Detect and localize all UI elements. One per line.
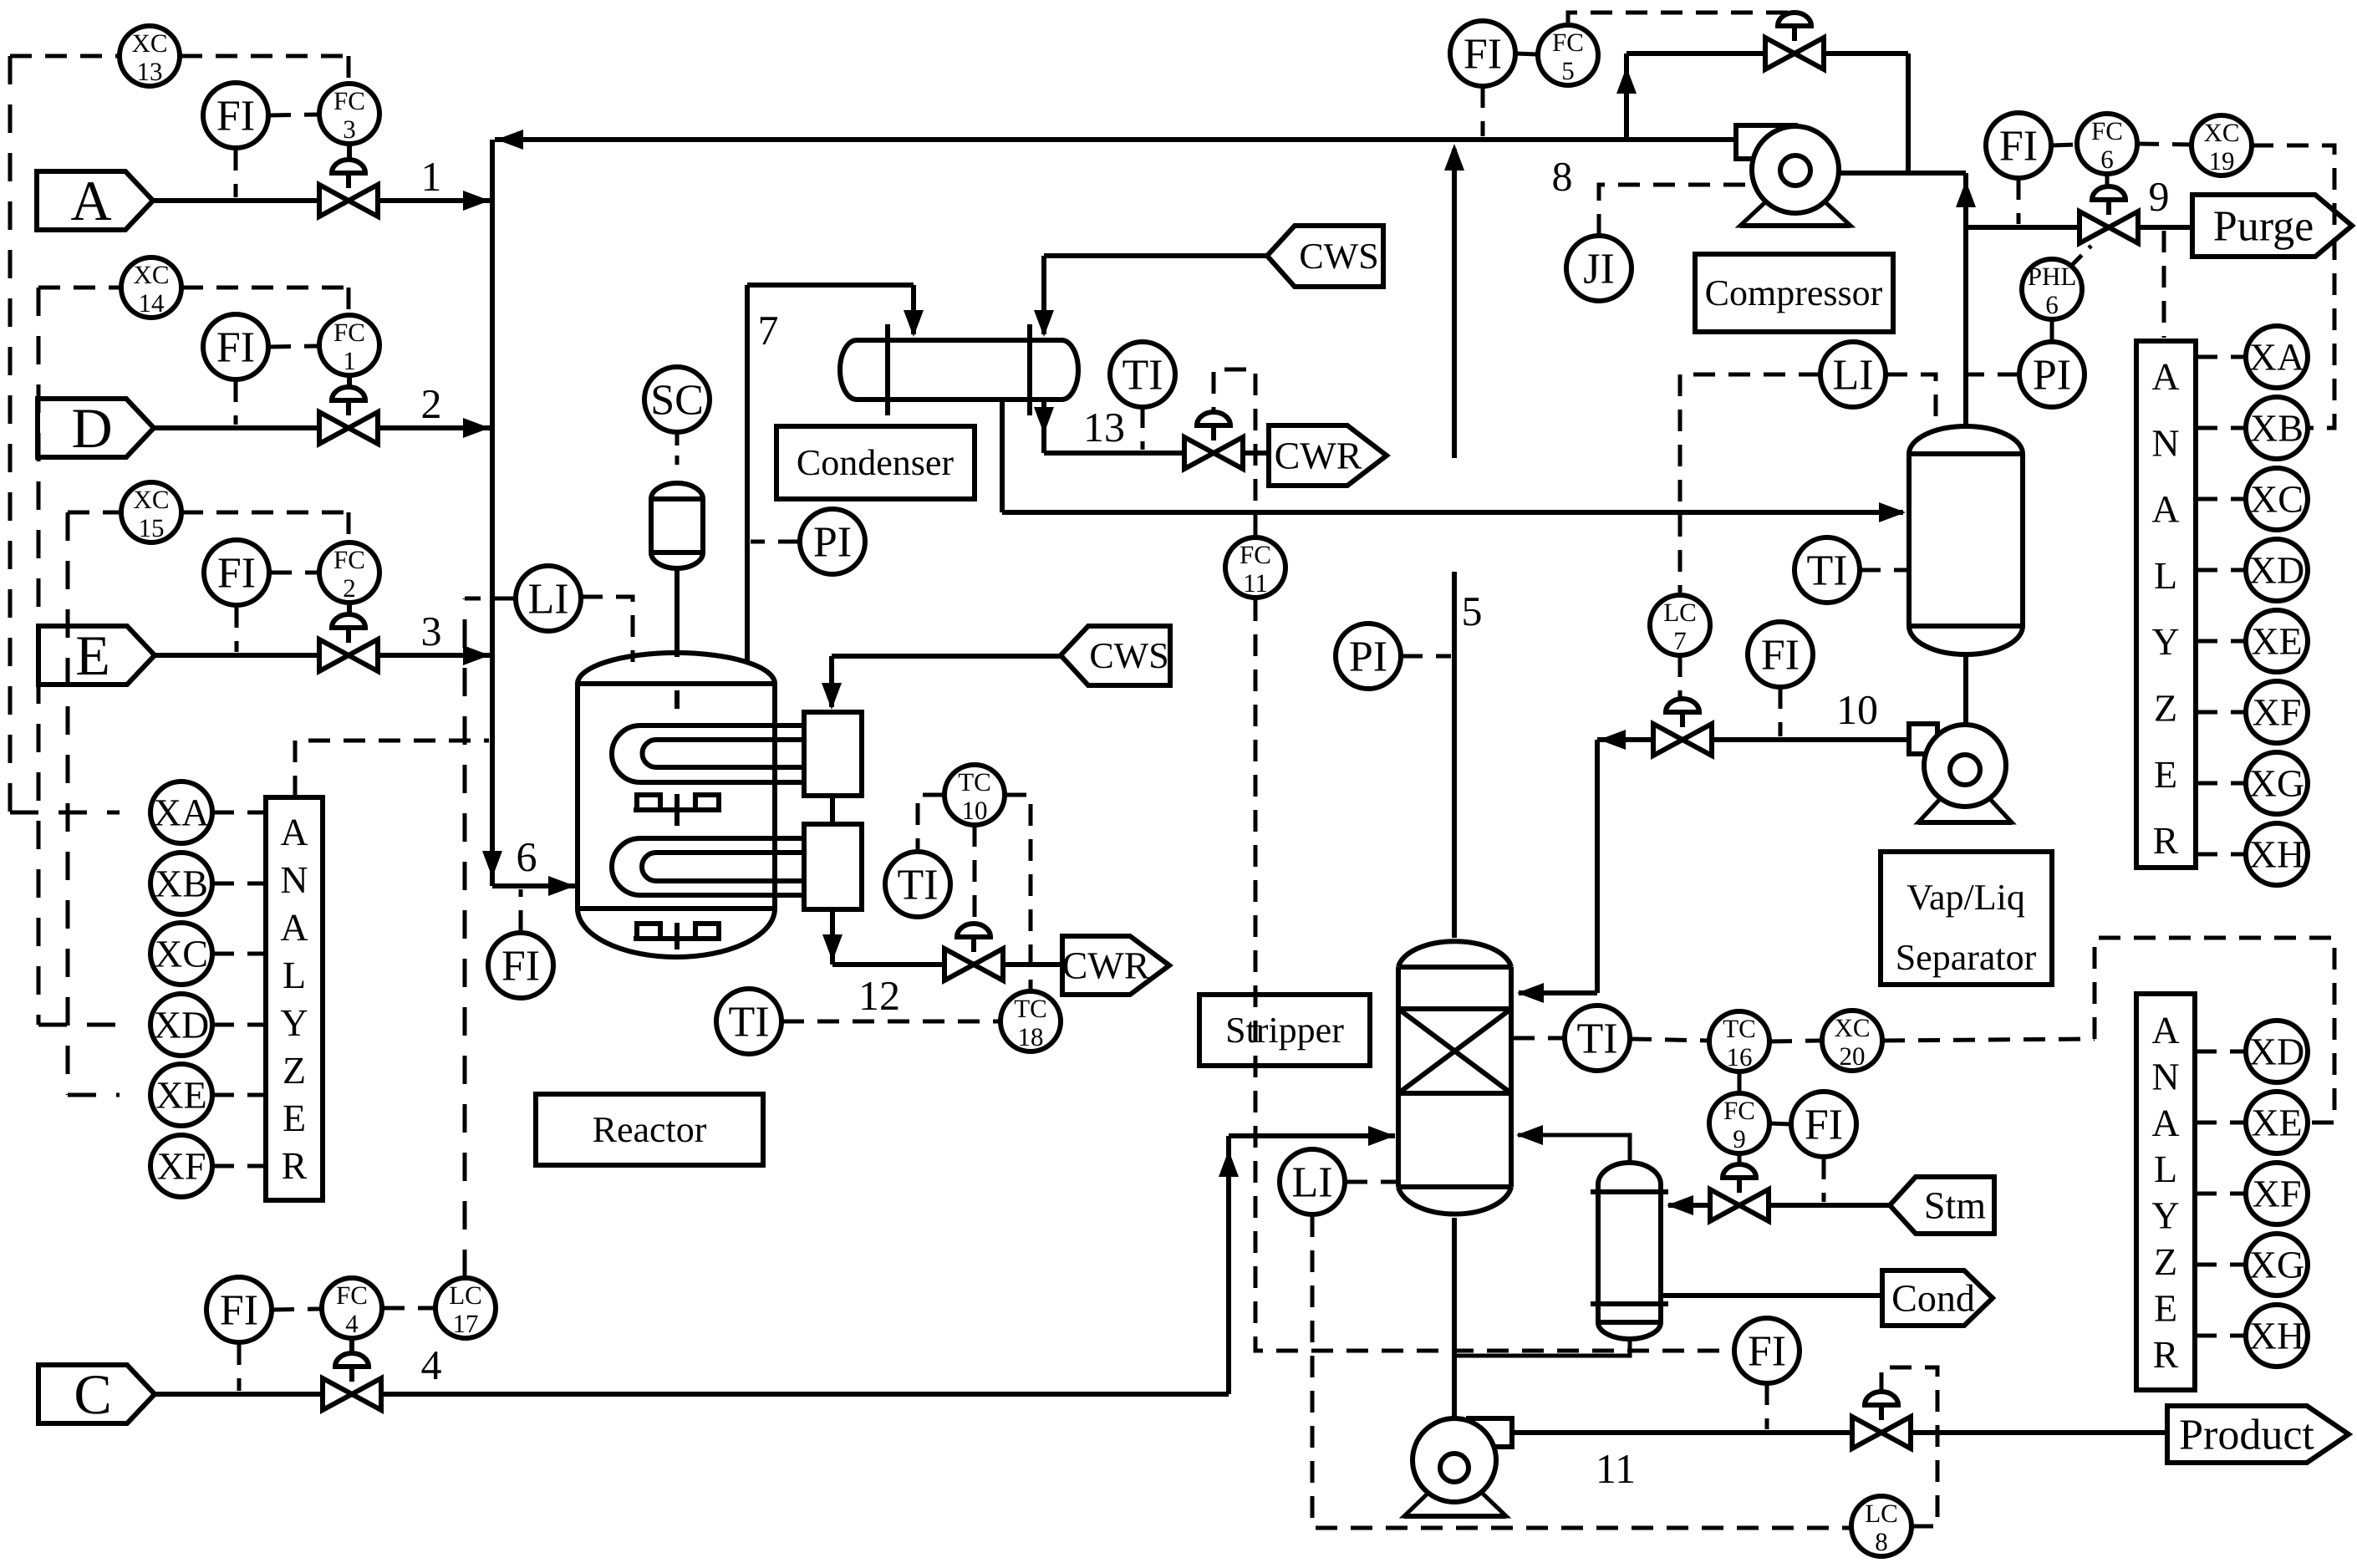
valve reactor CW (TC10) — [944, 924, 1003, 980]
svg-text:A: A — [280, 811, 308, 853]
vessel Reactor body — [578, 653, 775, 957]
controller FC11 — [1225, 537, 1285, 598]
indicator PI (separator) — [2019, 342, 2085, 407]
label stream 10 — [1836, 686, 1878, 733]
wire: reboiler drain to bottoms — [1454, 1337, 1630, 1356]
svg-text:LC: LC — [449, 1280, 482, 1310]
wire: dashed FC11 down to FI — [1255, 599, 1734, 1351]
feed arrow C — [38, 1362, 155, 1426]
svg-text:FI: FI — [1805, 1102, 1843, 1149]
compressor base — [1740, 202, 1850, 226]
controller FC5 — [1538, 25, 1598, 85]
controller FC6 — [2077, 114, 2137, 174]
indicator XH (purge analyzer) — [2246, 823, 2308, 885]
wire: stream 5 stripper overhead — [1444, 144, 1464, 938]
svg-text:14: 14 — [139, 288, 165, 318]
svg-text:Cond: Cond — [1891, 1277, 1975, 1320]
svg-text:XF: XF — [2253, 691, 2302, 734]
wire: dashed FC4-LC17 — [383, 1306, 435, 1311]
wire: dashed PI to stream 5 — [1401, 654, 1451, 659]
wire: dashed TI to stream 13 — [1141, 406, 1145, 450]
wire: dashed PI to stream 7 — [751, 540, 800, 544]
wire: FC1 stem to valve actuator — [347, 375, 352, 388]
svg-text:FC: FC — [1552, 28, 1584, 57]
wire: stream 13 condenser CW return — [1034, 400, 1269, 453]
feed arrow E — [38, 624, 155, 687]
label stream 7 — [758, 307, 779, 354]
in arrow CWS (condenser) — [1267, 226, 1383, 287]
indicator XF (product analyzer) — [2246, 1163, 2308, 1224]
svg-text:L: L — [2154, 1148, 2177, 1190]
svg-text:R: R — [2153, 1333, 2179, 1376]
indicator XD (purge analyzer) — [2246, 539, 2308, 601]
compressor body — [1752, 126, 1839, 213]
indicator XD (feed analyzer) — [150, 994, 212, 1056]
controller XC15 — [121, 482, 181, 542]
wire: separator overhead riser — [1956, 173, 1976, 426]
wire: FC4 stem to valve actuator — [349, 1338, 354, 1353]
wire: dashed analyzer to XF — [2196, 710, 2246, 715]
svg-text:FI: FI — [1464, 31, 1502, 79]
indicator XE (purge analyzer) — [2246, 610, 2308, 672]
svg-text:JI: JI — [1583, 246, 1615, 293]
svg-text:XD: XD — [2249, 1031, 2304, 1073]
svg-text:E: E — [283, 1097, 306, 1139]
svg-text:11: 11 — [1243, 568, 1268, 598]
svg-text:XC: XC — [1834, 1013, 1870, 1042]
wire: CWS to condenser — [1034, 256, 1267, 337]
svg-text:A: A — [70, 169, 111, 232]
svg-text:E: E — [2154, 1286, 2177, 1329]
wire: dashed FC6-XC19 — [2137, 144, 2192, 145]
svg-text:N: N — [2151, 421, 2179, 464]
indicator LI (reactor) — [516, 566, 581, 631]
svg-text:FC: FC — [333, 318, 365, 347]
svg-text:SC: SC — [650, 377, 704, 425]
svg-text:1: 1 — [343, 346, 356, 375]
wire: dashed FI-FC3 — [269, 115, 318, 115]
valve C feed — [323, 1353, 381, 1410]
valve A feed — [319, 160, 378, 216]
in arrow CWS (reactor) — [1061, 626, 1170, 685]
wire: stream 3 (E feed line) — [155, 645, 490, 665]
svg-text:Purge: Purge — [2213, 203, 2314, 251]
vessel Stripper — [1398, 941, 1511, 1214]
controller LC17 — [435, 1278, 496, 1338]
wire: compressor bypass line — [1616, 53, 1908, 173]
svg-text:XH: XH — [2249, 1315, 2304, 1357]
svg-text:C: C — [74, 1362, 111, 1426]
controller TC10 — [944, 765, 1005, 825]
svg-text:N: N — [280, 858, 308, 901]
svg-text:FC: FC — [1723, 1096, 1755, 1125]
svg-text:R: R — [282, 1144, 308, 1187]
feed arrow D — [38, 396, 154, 460]
svg-text:XC: XC — [133, 485, 169, 514]
svg-text:6: 6 — [517, 833, 537, 880]
svg-text:Product: Product — [2179, 1412, 2314, 1459]
label stream 11 — [1596, 1445, 1636, 1492]
indicator FI (recycle) — [1450, 21, 1515, 86]
svg-text:8: 8 — [1552, 153, 1573, 200]
wire: dashed analyzer to XD (product) — [2195, 1050, 2246, 1054]
svg-text:FC: FC — [1240, 540, 1271, 569]
indicator XF (purge analyzer) — [2246, 681, 2308, 743]
valve steam (FC9) — [1710, 1164, 1769, 1221]
svg-text:CWR: CWR — [1275, 435, 1362, 477]
svg-text:1: 1 — [421, 153, 442, 200]
wire: dashed LI down to LC8 — [1312, 1215, 1850, 1528]
svg-text:PHL: PHL — [2028, 262, 2077, 291]
wire: stream 4 (C feed line) — [155, 1126, 1395, 1394]
wire: dashed analyzer to XB (feed) — [212, 882, 266, 886]
svg-text:XC: XC — [133, 260, 169, 289]
wire: stream 11 product line — [1512, 1430, 2167, 1435]
controller XC13 — [120, 26, 180, 86]
svg-text:L: L — [2154, 554, 2177, 597]
svg-text:FC: FC — [336, 1280, 368, 1310]
wire: dashed TC10 to TI — [918, 795, 944, 849]
label stream 6 — [517, 833, 537, 880]
svg-text:R: R — [2153, 819, 2179, 862]
wire: dashed loop XC13 to XA (composition A control) — [10, 56, 349, 812]
indicator PI (recycle gas) — [800, 509, 865, 574]
indicator XG (purge analyzer) — [2246, 752, 2308, 814]
wire: dashed LC8 to product valve — [1881, 1367, 1937, 1526]
svg-text:D: D — [71, 396, 112, 460]
compressor inlet flange box — [1736, 125, 1795, 159]
wire: FC2 stem to valve actuator — [347, 603, 352, 615]
indicator TI (reactor) — [716, 989, 781, 1054]
svg-text:XG: XG — [2249, 762, 2304, 805]
label stream 2 — [421, 380, 442, 427]
svg-text:CWS: CWS — [1089, 635, 1168, 676]
wire: dashed FC11 to CW valve — [1214, 369, 1255, 536]
indicator XA (purge analyzer) — [2246, 326, 2308, 388]
agitator shaft — [675, 568, 680, 949]
svg-text:6: 6 — [2045, 290, 2059, 319]
svg-text:A: A — [2151, 355, 2179, 398]
svg-text:TC: TC — [1014, 994, 1047, 1023]
indicator FI (A feed) — [203, 83, 268, 148]
indicator XF (feed analyzer) — [150, 1135, 212, 1197]
svg-text:4: 4 — [421, 1341, 442, 1388]
svg-text:XE: XE — [2251, 620, 2302, 663]
wire: dashed FI down to stream 10 — [1779, 687, 1783, 736]
wire: dashed analyzer to XC (feed) — [212, 952, 266, 956]
svg-text:A: A — [2151, 1102, 2179, 1144]
wire: dashed FI-FC4 — [272, 1309, 321, 1310]
wire: reboiler vapor return to stripper — [1516, 1125, 1630, 1163]
wire: dashed analyzer to XC — [2196, 497, 2246, 501]
vessel Vap/Liq Separator — [1909, 426, 2023, 654]
vessel Condenser — [840, 324, 1078, 415]
pump separator bottoms — [1909, 724, 2012, 822]
wire: dashed XC20 to product analyzer loop — [1883, 1039, 2095, 1041]
svg-text:TI: TI — [728, 999, 769, 1046]
svg-text:2: 2 — [343, 573, 356, 603]
svg-text:FC: FC — [2091, 116, 2123, 145]
wire: dashed FI down to recycle line — [1481, 86, 1485, 136]
wire: separator bottoms to pump — [1963, 654, 1968, 724]
indicator XB (purge analyzer) — [2246, 397, 2308, 459]
svg-text:FC: FC — [333, 86, 365, 115]
svg-text:11: 11 — [1596, 1445, 1636, 1492]
svg-text:PI: PI — [1349, 634, 1387, 681]
wire: CWS to reactor coil — [822, 656, 1061, 710]
wire: dashed TI to TC16 — [1630, 1039, 1708, 1041]
indicator FI (D feed) — [203, 314, 268, 379]
label stream 3 — [421, 608, 442, 654]
svg-text:Z: Z — [2154, 1240, 2177, 1283]
valve purge — [2080, 186, 2138, 243]
controller XC14 — [121, 257, 181, 318]
indicator PI (stripper) — [1336, 624, 1401, 689]
svg-text:Y: Y — [2151, 620, 2179, 663]
wire: dashed FI-FC5 — [1515, 53, 1538, 54]
wire: dashed FI down to D line — [234, 380, 238, 425]
svg-text:19: 19 — [2209, 146, 2235, 176]
indicator FI (steam) — [1791, 1092, 1856, 1157]
wire: dashed TC16 to FC9 — [1738, 1072, 1742, 1092]
out arrow Cond — [1882, 1270, 1993, 1326]
svg-text:6: 6 — [2100, 145, 2114, 174]
label stream 5 — [1462, 588, 1483, 634]
wire: dashed FC5 to bypass valve — [1568, 13, 1794, 25]
wire: FC3 stem to valve actuator — [347, 144, 352, 160]
indicator XC (feed analyzer) — [150, 923, 212, 985]
wire: dashed LC17 up to reactor LI — [463, 598, 467, 1278]
wire: dashed PI to overhead line — [1968, 373, 2019, 377]
wire: dashed analyzer to XE (feed) — [212, 1093, 266, 1097]
svg-text:TI: TI — [1122, 352, 1163, 400]
svg-text:LI: LI — [527, 576, 568, 624]
in/out arrow CWR (condenser) — [1269, 425, 1387, 486]
wire: stream 2 (D feed line) — [154, 418, 490, 438]
controller LC8 — [1851, 1496, 1912, 1556]
indicator XE (product analyzer) — [2246, 1092, 2308, 1153]
svg-text:Condenser: Condenser — [797, 442, 955, 483]
svg-text:FI: FI — [220, 1287, 258, 1335]
wire: dashed analyzer to XE — [2196, 639, 2246, 644]
wire: dashed LI to LC7 — [1680, 374, 1820, 595]
svg-text:FI: FI — [216, 324, 255, 372]
svg-text:Stm: Stm — [1924, 1184, 1986, 1227]
svg-text:8: 8 — [1875, 1527, 1888, 1556]
equipment label Condenser — [776, 426, 975, 499]
wire: stripper bottoms to pump — [1452, 1218, 1457, 1418]
reactor coolant head upper — [804, 712, 862, 796]
controller FC9 — [1709, 1093, 1769, 1153]
svg-text:A: A — [2151, 488, 2179, 531]
svg-text:Z: Z — [283, 1049, 306, 1092]
svg-text:12: 12 — [858, 972, 900, 1019]
indicator LI (stripper) — [1280, 1149, 1345, 1214]
svg-text:3: 3 — [343, 115, 356, 144]
label stream 9 — [2149, 173, 2170, 220]
wire: stream 1 (A feed line) — [153, 191, 490, 211]
wire: reactor feed header — [482, 140, 575, 896]
wire: dashed analyzer to XG — [2196, 781, 2246, 786]
reactor baffle lower — [634, 924, 720, 939]
wire: dashed product analyzer loop to XE — [2095, 938, 2334, 1123]
wire: dashed analyzer to XB — [2196, 426, 2246, 430]
wire: dashed analyzer to XF (feed) — [212, 1164, 266, 1168]
valve D feed — [319, 387, 378, 444]
svg-text:Compressor: Compressor — [1705, 272, 1883, 313]
indicator TI (separator) — [1794, 537, 1860, 603]
wire: dashed analyzer to XD (feed) — [212, 1023, 266, 1027]
svg-text:17: 17 — [453, 1309, 479, 1338]
equipment label Reactor — [536, 1094, 763, 1165]
wire: dashed TI to TC18 — [782, 1020, 1000, 1024]
svg-text:FI: FI — [1748, 1328, 1786, 1376]
wire: stream 7 reactor to condenser — [747, 285, 924, 662]
equipment label Vap/Liq Separator — [1881, 852, 2052, 985]
svg-text:LI: LI — [1832, 352, 1873, 400]
wire: dashed analyzer to XA (feed) — [212, 811, 266, 815]
svg-text:XA: XA — [2249, 336, 2304, 379]
out arrow Product — [2167, 1406, 2349, 1463]
agitator motor — [651, 483, 703, 568]
svg-text:XF: XF — [157, 1145, 206, 1188]
svg-text:2: 2 — [421, 380, 442, 427]
wire: dashed TC10 to TC18 — [1005, 795, 1031, 990]
indicator JI (compressor power) — [1566, 236, 1632, 301]
label stream 13 — [1083, 404, 1125, 451]
wire: dashed TC16-XC20 — [1770, 1041, 1821, 1041]
svg-text:20: 20 — [1840, 1041, 1866, 1071]
indicator FI (stream 6) — [488, 933, 553, 998]
wire: dashed FI-FC6 — [2051, 145, 2077, 145]
svg-text:TI: TI — [897, 862, 938, 909]
svg-text:7: 7 — [1673, 626, 1687, 655]
valve E feed — [319, 614, 378, 671]
indicator FI (E feed) — [204, 540, 269, 605]
svg-text:L: L — [283, 954, 306, 996]
valve product (LC8) — [1852, 1392, 1911, 1448]
wire: dashed FI down to steam line — [1822, 1158, 1826, 1202]
wire: dashed FI up to stream 6 — [519, 889, 523, 932]
svg-text:E: E — [75, 624, 110, 687]
agitator SC circle — [644, 367, 710, 432]
wire: dashed FI-FC1 — [269, 346, 318, 347]
wire: dashed SC to agitator motor — [675, 432, 680, 465]
wire: dashed FI down to C line — [237, 1343, 242, 1391]
wire: dashed analyzer to XD — [2196, 568, 2246, 573]
feed arrow A — [37, 169, 153, 232]
svg-text:XA: XA — [154, 792, 209, 834]
wire: recycle line stream 8 (top) — [495, 130, 1736, 150]
wire: dashed analyzer to XG (product) — [2195, 1263, 2246, 1267]
indicator FI (C feed) — [206, 1277, 272, 1342]
indicator FI (product) — [1734, 1318, 1800, 1383]
svg-text:9: 9 — [1733, 1124, 1746, 1153]
svg-text:FC: FC — [333, 545, 365, 574]
svg-text:XH: XH — [2249, 833, 2304, 876]
wire: dashed analyzer to XE (product) — [2195, 1121, 2246, 1125]
svg-text:10: 10 — [962, 796, 988, 825]
svg-text:Reactor: Reactor — [593, 1109, 707, 1150]
svg-text:5: 5 — [1462, 588, 1483, 634]
svg-text:LI: LI — [1291, 1159, 1332, 1207]
wire: dashed reactor feed sample to analyzer — [295, 741, 489, 797]
controller XC19 — [2192, 115, 2252, 176]
vessel steam heater — [1591, 1163, 1668, 1339]
indicator LI (separator) — [1820, 342, 1886, 407]
svg-text:13: 13 — [137, 57, 163, 86]
svg-text:PI: PI — [2033, 352, 2071, 400]
svg-text:XC: XC — [155, 933, 208, 975]
wire: dashed FI down to purge line — [2017, 178, 2021, 224]
reactor baffle upper — [634, 795, 720, 810]
wire: dashed LI left to LC17 drop — [465, 597, 516, 601]
label stream 4 — [421, 1341, 442, 1388]
wire: dashed LI to separator vessel — [1886, 374, 1936, 422]
wire: compressor suction from separator — [1839, 171, 1966, 176]
wire: dashed stripper to TI — [1513, 1036, 1565, 1041]
indicator FI (stream 10) — [1748, 622, 1813, 687]
reactor cooling coil upper — [612, 725, 804, 782]
svg-text:5: 5 — [1561, 56, 1575, 85]
svg-text:FI: FI — [216, 93, 255, 140]
valve compressor bypass — [1765, 13, 1824, 69]
svg-text:TC: TC — [958, 767, 991, 797]
svg-text:Y: Y — [2151, 1194, 2179, 1237]
svg-text:E: E — [2154, 753, 2177, 796]
wire: dashed FC9-FI — [1770, 1123, 1790, 1124]
svg-text:XE: XE — [2251, 1102, 2302, 1144]
svg-text:XC: XC — [131, 28, 167, 58]
controller LC7 — [1650, 595, 1710, 655]
svg-text:XD: XD — [154, 1004, 209, 1046]
analyzer box (product) — [2136, 994, 2195, 1390]
svg-text:LC: LC — [1865, 1499, 1898, 1528]
svg-text:TI: TI — [1806, 547, 1847, 595]
wire: dashed PHL6 to purge valve — [2071, 246, 2091, 266]
svg-text:XC: XC — [2203, 118, 2239, 147]
in/out arrow CWR (reactor) — [1062, 936, 1169, 995]
wire: dashed loop XC15 to XE — [68, 512, 349, 1095]
wire: dashed LI to reactor dome — [581, 597, 633, 662]
svg-text:LC: LC — [1663, 598, 1697, 627]
indicator TI (coolant outlet) — [885, 852, 950, 917]
controller TC18 — [1000, 991, 1061, 1051]
controller FC1 — [319, 315, 379, 375]
svg-text:CWS: CWS — [1299, 236, 1378, 277]
wire: dashed analyzer to XH — [2196, 853, 2246, 857]
wire: stream 10 (separator liquid to stripper) — [1517, 730, 1909, 1003]
svg-text:N: N — [2151, 1055, 2179, 1097]
indicator XG (product analyzer) — [2246, 1234, 2308, 1296]
wire: dashed FC9 stem to steam valve — [1738, 1154, 1742, 1164]
wire: dashed loop XC14 to XD — [38, 288, 349, 1025]
wire: dashed FI down to A line — [234, 149, 238, 197]
wire: dashed PHL6 to PI — [2050, 319, 2054, 341]
wire: dashed TC10 stem to CW valve — [973, 825, 977, 924]
indicator XA (feed analyzer) — [150, 781, 212, 843]
label stream 12 — [858, 972, 900, 1019]
indicator FI (purge) — [1986, 113, 2051, 178]
label stream 1 — [421, 153, 442, 200]
indicator XE (feed analyzer) — [150, 1064, 212, 1126]
wire: condenser outlet drop — [1000, 400, 1005, 512]
svg-text:CWR: CWR — [1062, 944, 1150, 987]
reactor cooling coil lower — [612, 838, 804, 895]
wire: steam line — [1667, 1195, 1890, 1215]
wire: dashed analyzer to XA — [2196, 355, 2246, 359]
svg-text:3: 3 — [421, 608, 442, 654]
